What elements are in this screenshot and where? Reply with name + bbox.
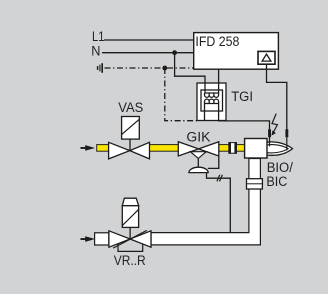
wire flame signal to ionisation electrode [267, 64, 287, 130]
TGI secondary winding [205, 99, 219, 103]
ignition spark symbol [271, 114, 277, 136]
ground PE symbol [98, 63, 103, 73]
VR actuator diagonal [122, 209, 138, 225]
wire PE dash-dot [105, 67, 195, 69]
wire N [102, 52, 194, 54]
wire PE branch to TGI housing (dash-dot) [165, 68, 197, 121]
impulse line to air pipe [207, 173, 231, 233]
gas inlet arrow [81, 145, 96, 151]
burner flame inner [267, 145, 289, 153]
junction N [172, 50, 177, 55]
VR actuator cap [122, 198, 138, 205]
gas pipe (yellow) segment 1 [97, 145, 109, 152]
butterfly valve VR..R bowtie [109, 231, 151, 247]
VAS actuator stem [129, 139, 131, 151]
GIK pressure tap from outlet [208, 156, 219, 168]
impulse line break symbol // [217, 175, 223, 182]
pipe coupling on burner down-pipe [247, 179, 263, 189]
VAS actuator box [122, 117, 140, 140]
svg-text:N: N [91, 44, 100, 59]
svg-text:IFD 258: IFD 258 [195, 34, 239, 49]
wire TGI secondary to housing [204, 104, 206, 121]
gas pipe (yellow) segment 2 [149, 145, 179, 152]
flame signal indicator (triangle in box) [258, 51, 275, 64]
burner flame outer [267, 142, 293, 155]
orifice fitting in gas line [228, 142, 237, 154]
svg-text:BIO/: BIO/ [267, 160, 293, 175]
ratio control GIK bowtie [178, 142, 219, 156]
wire IFD to TGI primary right [218, 69, 220, 93]
spark electrode [268, 129, 271, 146]
VR actuator box [122, 206, 138, 228]
burner control unit U1 IFD 258 box [194, 33, 279, 70]
solenoid valve VAS bowtie [109, 142, 150, 159]
wire TGI HV to spark electrode [219, 104, 270, 130]
TGI transformer inner box [201, 90, 223, 111]
wire N into TGI primary left [204, 83, 206, 93]
svg-text:TGI: TGI [231, 89, 253, 104]
GIK stem [197, 158, 199, 168]
svg-text:VR..R: VR..R [114, 253, 146, 268]
VR actuator stem [129, 227, 131, 239]
gas pipe (yellow) segment 3 [219, 145, 230, 152]
VAS actuator diagonal [122, 119, 140, 134]
svg-text:BIC: BIC [266, 174, 287, 189]
wire N to TGI primary [175, 53, 205, 84]
TGI primary winding [205, 93, 219, 97]
ionisation electrode [285, 129, 288, 150]
ignition transformer TGI housing [197, 83, 226, 121]
gas pipe (yellow) segment 4 [236, 145, 245, 152]
VR disc diagonal [113, 230, 147, 248]
GIK diaphragm link triangle [190, 152, 206, 159]
air pipe to burner (L shape) [151, 159, 260, 245]
svg-text:GIK: GIK [186, 130, 210, 145]
GIK diaphragm dome [189, 167, 208, 172]
junction PE [162, 66, 167, 71]
air pipe stub before valve [95, 233, 109, 245]
air inlet arrow [81, 236, 96, 242]
svg-text:VAS: VAS [118, 100, 143, 115]
VR seat bracket [118, 244, 143, 252]
svg-text:L1: L1 [92, 29, 105, 44]
burner body [245, 139, 267, 159]
wire L1 [104, 39, 194, 41]
